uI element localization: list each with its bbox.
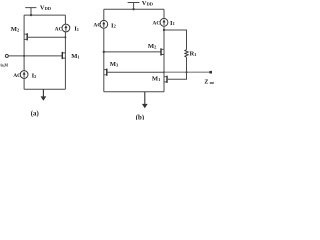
junction dot VDD (a) [30, 14, 32, 16]
junction dot R1 bottom (b) [186, 71, 188, 73]
svg-text:(b): (b) [136, 114, 144, 120]
wire: right branch vertical (a) [64, 15, 66, 89]
transistor M1 (a) [62, 53, 65, 58]
transistor M2 (b) [161, 49, 164, 54]
wire: to resistor branch top (b) [164, 30, 187, 50]
ground arrow (a) [41, 89, 47, 100]
transistor M3 (b) [104, 70, 107, 75]
svg-text:AC: AC [55, 26, 63, 32]
svg-text:AC: AC [93, 23, 101, 29]
wire: top rail (a) [24, 14, 65, 16]
svg-text:VDD: VDD [40, 5, 51, 12]
svg-text:I2: I2 [111, 22, 116, 29]
svg-text:VDD: VDD [142, 0, 153, 7]
svg-text:I2: I2 [32, 73, 37, 80]
resistor R1 [185, 50, 188, 58]
wire: input node to gate of M1 (a) [8, 55, 62, 57]
svg-text:M3: M3 [110, 61, 119, 68]
wire: bottom rail (a) [24, 88, 65, 90]
junction dot mid output wire (b) [163, 71, 165, 73]
current source I1 (a) [62, 24, 70, 32]
wire: bottom rail (b) [104, 91, 164, 93]
wire: gate of M1 up to output node (b) [167, 72, 187, 79]
svg-text:M2: M2 [148, 43, 156, 50]
svg-text:M1: M1 [152, 76, 160, 83]
transistor M2 (a) [24, 34, 27, 39]
junction dot VDD (b) [132, 8, 134, 10]
svg-text:AC: AC [13, 73, 21, 79]
current source I2 (b) [100, 20, 108, 28]
wire: output node to terminal (b) [164, 71, 211, 73]
svg-text:I1: I1 [74, 26, 79, 33]
svg-text:M2: M2 [11, 26, 19, 33]
junction dot gate wire (b) [103, 51, 105, 53]
input terminal circle (a) [5, 54, 8, 57]
svg-text:AC: AC [152, 20, 160, 26]
wire: gate of M2 to right branch (a) [27, 36, 65, 38]
svg-text:in,M: in,M [1, 64, 9, 68]
wire: right branch vertical (b) [163, 9, 165, 92]
wire: gate of M2 (b) [104, 51, 161, 53]
wire: resistor bottom to output node (b) [186, 57, 188, 72]
svg-text:Z: Z [204, 79, 208, 85]
svg-text:R1: R1 [190, 51, 197, 58]
wire: top rail (b) [104, 8, 164, 10]
VDD supply bar (b) [128, 3, 140, 10]
VDD supply bar (a) [25, 8, 36, 16]
junction dot node / left branch (a) [23, 55, 25, 57]
svg-text:(a): (a) [31, 110, 39, 117]
wire: left branch vertical (b) [103, 9, 105, 92]
junction dot below I1 (b) [163, 29, 165, 31]
wire: M3 gate to output node (b) [107, 71, 164, 73]
junction dot gate M2 / right branch (a) [64, 36, 66, 38]
ground arrow (b) [142, 92, 148, 109]
wire: left branch vertical (a) [23, 15, 25, 71]
svg-text:M1: M1 [71, 53, 79, 60]
svg-text:I1: I1 [170, 20, 175, 27]
wire: left branch lower segment to bottom (a) [23, 78, 25, 89]
transistor M1 (b) [164, 77, 167, 82]
current source I2 (a) [20, 71, 28, 79]
current source I1 (b) [160, 18, 168, 26]
output terminal square (b) [209, 71, 212, 74]
svg-text:out: out [210, 81, 214, 85]
